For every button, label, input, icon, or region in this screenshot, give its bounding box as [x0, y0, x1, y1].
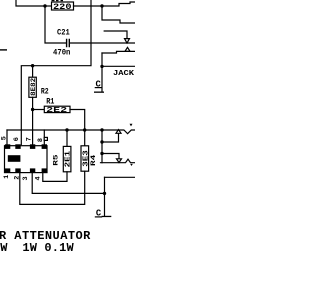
wire node E left then down to bus: [21, 66, 32, 130]
pad 4: [42, 168, 47, 173]
pad 7: [30, 144, 35, 149]
svg-text:2E1: 2E1: [65, 151, 73, 168]
resistor R5 box value 1E2: [63, 146, 71, 171]
svg-text:R2: R2: [41, 87, 49, 96]
jack J2 nub mark top: [130, 124, 133, 127]
resistor R1 box value 2E2: [44, 106, 70, 112]
jack J1 ring wire: [102, 51, 135, 53]
pad 1: [5, 168, 10, 173]
terminal bar net C (jack J2): [102, 216, 112, 217]
resistor R4 wire from bus: [84, 131, 86, 146]
pad 2: [15, 168, 20, 173]
node G junction dot: [103, 192, 106, 195]
resistor R4 box value 3E3: [81, 146, 89, 171]
svg-text:220: 220: [53, 3, 72, 12]
node E junction dot: [31, 64, 34, 67]
svg-text:W 1W 0.1W: W 1W 0.1W: [0, 241, 74, 255]
wire top-left L: [16, 0, 44, 6]
node R5-bus junction dot: [65, 128, 68, 131]
jack J2 node 3 dot: [100, 152, 103, 155]
jack J1 tip contact arrow (open triangle down): [125, 39, 130, 43]
wire R1 right to bus: [70, 110, 85, 130]
svg-text:8E82: 8E82: [30, 78, 37, 96]
svg-text:R5: R5: [53, 154, 60, 165]
svg-text:470n: 470n: [53, 48, 70, 57]
svg-text:3: 3: [22, 176, 30, 180]
wire node A down to C21 then right: [45, 7, 66, 43]
cropped text dash left edge: [0, 49, 7, 50]
jack J2 bottom line with bump: [101, 159, 136, 163]
wire node A to resistor R23: [46, 5, 52, 7]
svg-text:7: 7: [25, 137, 33, 141]
node B junction dot: [100, 4, 103, 7]
pad 6: [15, 144, 20, 149]
pad 8: [42, 144, 47, 149]
attenuator module U1 box: [5, 146, 48, 173]
wire pad3 down to node G: [32, 173, 103, 193]
wire pad2 down to R4 bottom: [20, 171, 85, 204]
wire node B down-step to jack J1: [102, 7, 135, 23]
jack J1 mid wire y31: [104, 31, 127, 39]
capacitor C21 plates: [67, 40, 70, 47]
svg-text:R1: R1: [46, 98, 54, 107]
wire R2 to node D: [32, 97, 34, 108]
resistor R23 box value 220: [52, 2, 74, 10]
svg-text:6: 6: [13, 137, 21, 141]
node A junction dot: [43, 4, 46, 7]
wire jack J2 sleeve down to terminal bar: [104, 177, 106, 216]
jack J2 node 2 dot: [100, 140, 103, 143]
capacitor C21 wire to jack line: [70, 42, 135, 44]
jack J2 top line with notch: [102, 130, 135, 134]
resistor R2 box value 8E82: [29, 77, 36, 97]
jack J1 ring contact arrow (open triangle up): [125, 47, 130, 51]
svg-text:5: 5: [1, 136, 9, 140]
module body mark: [8, 155, 21, 162]
jack J2 node 1 dot on bus: [100, 128, 103, 131]
wire bus to pad2: [20, 130, 22, 145]
svg-text:JACK: JACK: [113, 70, 135, 78]
wire node E down to resistor R2: [32, 66, 34, 77]
node F junction dot (R1/R4 on bus): [83, 128, 86, 131]
pin 9 square marker: [44, 137, 47, 140]
jack J2 tip contact wire and arrow: [103, 134, 119, 143]
wire node D column to pad3: [32, 110, 34, 145]
jack J1 sleeve wire: [103, 65, 135, 67]
jack J2 nub mark bottom: [130, 164, 133, 166]
pad 3: [30, 168, 35, 173]
node D junction dot: [31, 108, 34, 111]
wire node D to resistor R1: [34, 109, 45, 111]
wire bus to pad4: [43, 130, 45, 145]
wire vertical x91 from top to y65.7 then left to node E: [34, 0, 91, 66]
svg-text:1: 1: [3, 175, 11, 179]
pad 5: [5, 144, 10, 149]
svg-text:C21: C21: [57, 29, 70, 38]
wire node C down to terminal bar: [101, 67, 103, 91]
jack J2 vertical x102: [101, 130, 103, 163]
jack J2 ring contact wire and arrow: [103, 154, 119, 159]
terminal bar net C: [94, 92, 104, 93]
svg-text:R4: R4: [90, 155, 97, 166]
jack J1 ring wire down to node C: [101, 53, 103, 66]
svg-text:2E2: 2E2: [46, 107, 67, 115]
bus wire y130: [7, 129, 101, 131]
wire bus to pad1: [6, 130, 8, 145]
jack J2 sleeve wire: [105, 176, 136, 178]
resistor R23 label cropped: [52, 0, 64, 1]
resistor R5 wire from bus: [66, 131, 68, 146]
wire R23 to node B: [74, 5, 102, 7]
node C junction dot: [100, 65, 103, 68]
svg-text:4: 4: [35, 176, 43, 180]
wire node B to jack J1 tip (step up): [103, 2, 135, 6]
wire pad4 down to R5 bottom: [43, 172, 67, 182]
